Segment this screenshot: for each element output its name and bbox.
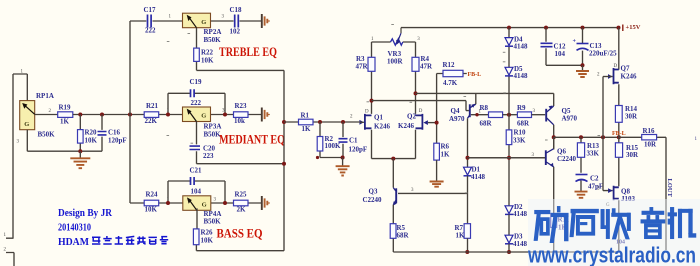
wire treble row (130, 20, 262, 22)
wire R9 to Q5 (532, 114, 546, 116)
svg-text:30R: 30R (626, 151, 639, 159)
resistor R5 (390, 224, 396, 239)
svg-text:G: G (24, 121, 29, 128)
svg-text:R1: R1 (301, 112, 310, 120)
ground under C13 (582, 65, 584, 70)
transistor Q6 C2240 (546, 149, 554, 168)
svg-text:C16: C16 (108, 129, 121, 137)
junction (370, 99, 374, 103)
resistor R19 (58, 112, 73, 118)
resistor R21 (144, 112, 159, 118)
svg-text:C19: C19 (190, 78, 203, 86)
junction (552, 135, 556, 139)
junction (466, 156, 470, 160)
svg-text:2: 2 (597, 73, 600, 78)
resistor R5 (392, 205, 394, 252)
diode D2 (505, 206, 513, 215)
svg-text:1: 1 (167, 109, 170, 114)
capacitor C18 (235, 15, 239, 28)
svg-text:LOUT: LOUT (666, 179, 673, 198)
resistor R20 (78, 130, 84, 144)
svg-text:C2: C2 (590, 175, 599, 183)
svg-text:C2240: C2240 (557, 155, 577, 163)
ground (575, 192, 588, 198)
svg-text:RP3A: RP3A (204, 123, 222, 131)
svg-text:D: D (365, 110, 369, 115)
diode D5 (505, 67, 513, 76)
svg-text:BASS EQ: BASS EQ (217, 226, 263, 241)
svg-text:Q2: Q2 (407, 113, 416, 121)
transistor Q3 C2240 (393, 188, 397, 206)
potentiometer RP3A (183, 107, 211, 122)
svg-text:R20: R20 (85, 129, 98, 137)
capacitor C21 bracket (168, 181, 225, 203)
wire wiper to R19 (35, 114, 58, 116)
resistor R1 row (284, 121, 359, 123)
svg-text:R16: R16 (643, 127, 656, 135)
junction (318, 120, 322, 124)
resistor R1 (299, 119, 314, 125)
svg-text:33K: 33K (587, 150, 600, 158)
resistor R15 (618, 137, 620, 186)
junction (617, 135, 621, 139)
wire Q5 collector (553, 125, 555, 150)
svg-text:2: 2 (4, 248, 7, 253)
wire R19 to row (73, 114, 144, 116)
junction (316, 156, 319, 159)
svg-text:222: 222 (145, 27, 156, 35)
ground bars (262, 108, 270, 122)
diode D1 (464, 167, 472, 176)
resistor R16 output (619, 137, 666, 250)
wire D1 to R7 (467, 176, 469, 224)
svg-text:1: 1 (169, 15, 172, 20)
wire R26 to bus (196, 250, 284, 252)
ground bars (262, 196, 270, 210)
watermark char kuang (534, 206, 568, 242)
svg-text:4148: 4148 (514, 72, 529, 80)
ground under R6 (436, 160, 438, 181)
wire Q4 collector to R8 (471, 114, 489, 116)
svg-text:Q1: Q1 (374, 114, 383, 122)
svg-text:4148: 4148 (513, 240, 528, 248)
junction (581, 63, 585, 67)
svg-text:HDAM: HDAM (58, 237, 89, 248)
capacitor C13 220uF/25 (582, 28, 584, 66)
svg-text:3: 3 (17, 140, 20, 145)
svg-text:B50K: B50K (204, 36, 222, 44)
potentiometer RP2A (183, 13, 211, 28)
transistor Q1 K246 (359, 114, 371, 130)
svg-text:FB-L: FB-L (468, 72, 482, 78)
watermark tint (528, 199, 700, 266)
resistor R2 (317, 137, 323, 152)
svg-text:10K: 10K (201, 57, 214, 65)
junction (465, 250, 469, 254)
junction (507, 156, 511, 160)
svg-text:G: G (201, 113, 206, 120)
wire bass row (130, 202, 262, 204)
junction (507, 250, 511, 254)
svg-text:RP2A: RP2A (204, 28, 222, 36)
resistor R24 (144, 200, 159, 206)
svg-text:Design By JR: Design By JR (58, 208, 112, 219)
svg-text:4148: 4148 (471, 173, 486, 181)
svg-text:D: D (614, 64, 618, 69)
svg-text:R6: R6 (441, 143, 450, 151)
junction (100, 113, 104, 117)
svg-text:104: 104 (555, 50, 566, 58)
resistor R9 (517, 112, 531, 118)
ground (70, 158, 90, 168)
resistor R10 (506, 130, 512, 145)
svg-text:A970: A970 (562, 115, 578, 123)
svg-text:K246: K246 (621, 73, 637, 81)
connector pin 2 (6, 253, 14, 266)
svg-text:10k: 10k (234, 117, 245, 125)
resistor R26 (193, 229, 199, 245)
resistor R14 (615, 106, 622, 123)
capacitor C12 (546, 28, 583, 66)
transistor Q5 A970 (546, 106, 554, 125)
watermark char shi (570, 209, 599, 237)
svg-text:B50K: B50K (204, 218, 222, 226)
potentiometer RP4A (183, 196, 211, 211)
ground (576, 71, 589, 77)
svg-text:D: D (419, 109, 423, 114)
title CJK chars (92, 237, 100, 244)
junction (341, 120, 345, 124)
svg-text:R21: R21 (146, 102, 159, 110)
junction (223, 113, 227, 117)
svg-text:10K: 10K (85, 137, 98, 145)
output rail (554, 136, 619, 138)
connector pin 1 (6, 74, 14, 238)
wire Q6 collector (553, 137, 555, 148)
wire Q6 base (468, 157, 546, 159)
transistor Q2 K246 (416, 114, 428, 130)
svg-text:RP1A: RP1A (36, 92, 54, 100)
wire bias rail (468, 157, 546, 159)
wire Q7 Q8 gate line (603, 77, 613, 191)
transistor Q4 A970 (468, 104, 476, 119)
capacitor C17 (148, 15, 152, 28)
svg-text:www.crystalradio.cn: www.crystalradio.cn (527, 243, 696, 266)
diode D3 (505, 235, 513, 244)
svg-text:120pF: 120pF (349, 146, 368, 154)
resistor R10 branch (508, 115, 510, 206)
svg-text:223: 223 (203, 152, 214, 160)
trimmer VR3 (372, 41, 416, 43)
wire Q3 base (398, 192, 468, 194)
svg-text:47pF: 47pF (588, 183, 603, 191)
wire Q8 source (618, 200, 620, 252)
svg-text:R25: R25 (235, 191, 248, 199)
junction (78, 149, 82, 153)
svg-text:C1: C1 (349, 137, 358, 145)
wire C20 to bus (197, 163, 285, 165)
bottom rail (393, 251, 619, 253)
svg-text:TREBLE EQ: TREBLE EQ (219, 45, 277, 59)
svg-text:1: 1 (695, 137, 698, 142)
svg-text:R12: R12 (443, 61, 456, 69)
wire RP1A pin1 (13, 74, 27, 101)
svg-text:R26: R26 (201, 229, 214, 237)
resistor R23 (234, 112, 249, 118)
resistor R25 (234, 200, 249, 206)
svg-text:2: 2 (49, 109, 52, 114)
transistor Q8 J103 (608, 186, 619, 200)
svg-text:2: 2 (350, 115, 353, 120)
svg-text:R10: R10 (514, 129, 527, 137)
svg-text:Q7: Q7 (621, 65, 630, 73)
resistor R20 branch (79, 115, 81, 152)
potentiometer RP1A (20, 101, 35, 130)
junction (166, 201, 170, 205)
resistor R22 (194, 48, 200, 61)
svg-text:B50K: B50K (38, 131, 56, 139)
wire R8-R9 (503, 114, 518, 116)
svg-text:30R: 30R (625, 113, 638, 121)
svg-text:1K: 1K (441, 151, 451, 159)
junction (128, 113, 132, 117)
svg-text:4.7K: 4.7K (443, 79, 458, 87)
resistor R11 (551, 214, 557, 228)
junction (507, 26, 511, 30)
ground bars (262, 14, 270, 28)
junction (282, 162, 286, 166)
resistor R13 (577, 143, 584, 158)
junction (223, 201, 227, 205)
svg-text:100R: 100R (387, 58, 404, 66)
svg-text:K246: K246 (374, 123, 390, 131)
svg-text:1K: 1K (302, 125, 312, 133)
wire sources join (372, 130, 416, 159)
svg-text:C18: C18 (230, 6, 243, 14)
capacitor C1 branch (342, 122, 344, 158)
svg-text:47R: 47R (420, 63, 433, 71)
watermark char ji (668, 207, 696, 238)
svg-text:22K: 22K (145, 117, 158, 125)
svg-text:C2240: C2240 (363, 196, 383, 204)
svg-text:Q3: Q3 (369, 188, 378, 196)
svg-text:G: G (201, 19, 206, 26)
capacitor C16 branch (101, 115, 103, 152)
svg-text:100K: 100K (325, 142, 342, 150)
svg-text:68R: 68R (480, 120, 493, 128)
svg-text:FB-L: FB-L (612, 131, 626, 137)
svg-text:K246: K246 (398, 122, 414, 130)
watermark char shou (601, 209, 631, 239)
svg-text:220uF/25: 220uF/25 (589, 50, 617, 58)
svg-text:R22: R22 (201, 49, 214, 57)
svg-text:47R: 47R (356, 63, 369, 71)
svg-text:3: 3 (417, 37, 420, 42)
junction (507, 113, 511, 117)
junction (435, 121, 439, 125)
resistor R4 (412, 57, 419, 71)
svg-text:104: 104 (191, 188, 202, 196)
svg-text:10R: 10R (644, 141, 657, 149)
power +15V (622, 25, 624, 32)
junction (579, 135, 583, 139)
svg-text:MEDIANT EQ: MEDIANT EQ (219, 133, 285, 147)
capacitor C20 wiper branch (196, 122, 198, 164)
svg-text:20140310: 20140310 (58, 223, 91, 234)
svg-text:C21: C21 (190, 167, 203, 175)
resistor R16 (642, 135, 657, 140)
resistor R12 (443, 70, 463, 76)
resistor R3 (368, 57, 375, 71)
EQ output bus (283, 70, 285, 250)
junction (282, 120, 286, 124)
resistor R15 (615, 143, 622, 158)
svg-text:R23: R23 (235, 102, 248, 110)
wire Q5 emitter (553, 93, 555, 106)
svg-text:Q4: Q4 (451, 107, 460, 115)
ground (430, 182, 444, 187)
wire diode string (508, 28, 510, 115)
junction (544, 26, 548, 30)
svg-text:1: 1 (371, 37, 374, 42)
resistor R14 (618, 84, 620, 137)
junction (391, 157, 395, 161)
wire R22 to bus (197, 69, 285, 71)
ground (336, 166, 350, 175)
svg-text:R19: R19 (59, 104, 72, 112)
ground wire under R2/C1 (320, 157, 343, 159)
ground under R20 (79, 151, 81, 158)
resistor R13 (580, 137, 582, 173)
svg-text:10K: 10K (201, 237, 214, 245)
junction (414, 91, 418, 95)
svg-text:3: 3 (533, 109, 536, 114)
junction (475, 113, 478, 116)
svg-text:3: 3 (222, 15, 225, 20)
svg-text:1K: 1K (60, 118, 70, 126)
svg-text:C17: C17 (144, 6, 157, 14)
resistor R2 branch (319, 122, 321, 158)
wire Q6 emitter / R11 (553, 167, 555, 252)
svg-text:68R: 68R (517, 120, 530, 128)
wire Q4 collector chain (467, 118, 469, 167)
svg-text:3: 3 (214, 198, 217, 203)
svg-text:68R: 68R (397, 232, 410, 240)
resistor R3 (371, 42, 373, 114)
svg-text:R24: R24 (146, 191, 159, 199)
svg-text:102: 102 (230, 28, 241, 36)
capacitor C2 (576, 174, 588, 176)
resistor R22 wiper branch (196, 28, 198, 71)
capacitor C19 bracket (168, 93, 225, 114)
resistor R8 (489, 112, 503, 118)
junction (78, 113, 82, 117)
left EQ rail (129, 21, 131, 203)
svg-text:R9: R9 (517, 104, 526, 112)
svg-text:+15V: +15V (626, 24, 641, 31)
svg-text:+: + (573, 39, 577, 45)
svg-text:4148: 4148 (513, 210, 528, 218)
svg-text:G: G (202, 201, 207, 208)
wire Q4 emitter (475, 93, 477, 104)
diode D4 (505, 38, 513, 47)
resistor R12 (437, 73, 467, 75)
junction (166, 113, 170, 117)
resistor R7 (464, 224, 470, 239)
svg-text:3: 3 (411, 188, 414, 193)
svg-text:33K: 33K (513, 137, 526, 145)
watermark char yin (641, 207, 665, 238)
resistor R6 (434, 143, 440, 160)
svg-text:A970: A970 (449, 115, 465, 123)
junction (581, 26, 585, 30)
transistor Q7 K246 (608, 68, 619, 84)
svg-text:10K: 10K (145, 206, 158, 214)
svg-text:222: 222 (191, 99, 202, 107)
junction (617, 26, 621, 30)
svg-text:R8: R8 (480, 104, 489, 112)
resistor R26 wiper branch (195, 208, 198, 250)
junction (601, 135, 605, 139)
svg-text:1: 1 (4, 233, 7, 238)
resistor R4 (415, 42, 417, 114)
wire mediant row (144, 114, 262, 116)
wire RP1A pin3 bottom (27, 130, 102, 152)
svg-text:1K: 1K (456, 232, 466, 240)
transistor Q7 K246 (618, 28, 620, 70)
feedback vertical (436, 74, 438, 144)
junction (341, 156, 345, 160)
svg-text:120pF: 120pF (108, 137, 127, 145)
svg-text:2K: 2K (237, 206, 247, 214)
svg-text:4148: 4148 (514, 43, 529, 51)
top supply rail (401, 27, 619, 29)
